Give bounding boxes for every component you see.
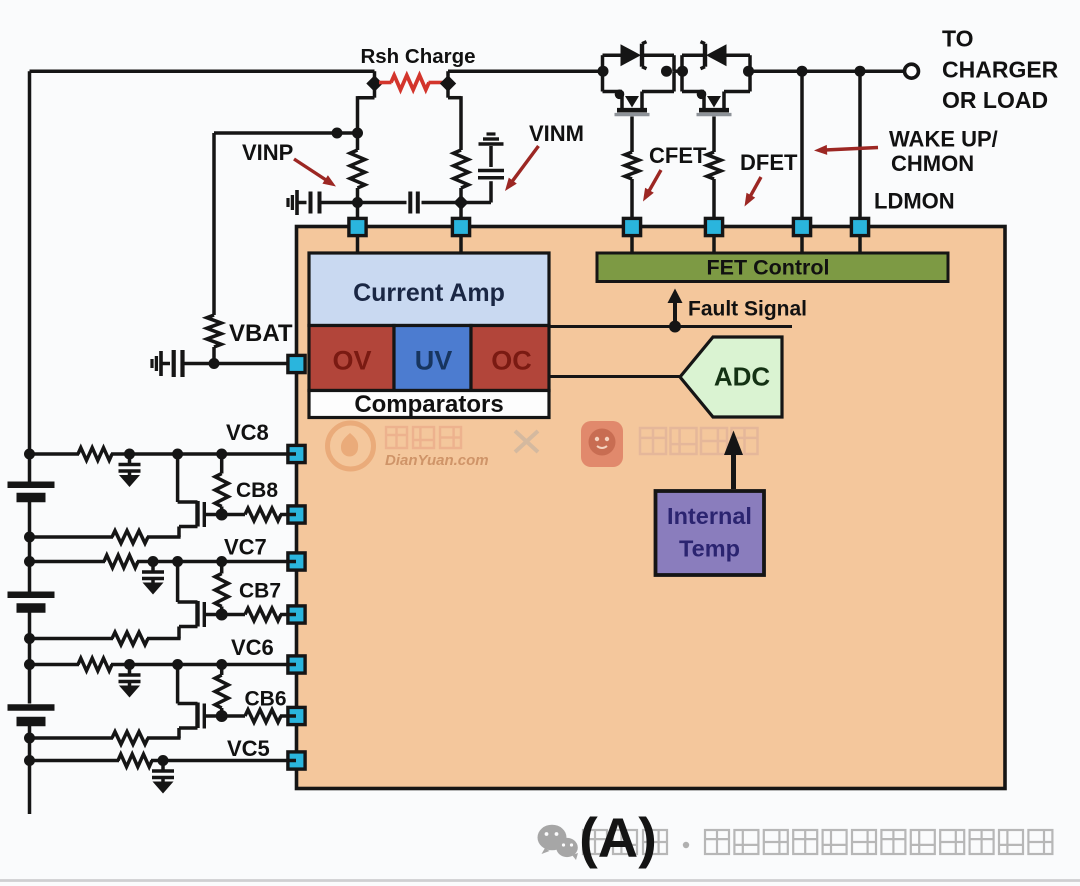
svg-text:OC: OC <box>491 346 532 376</box>
pin VBAT <box>288 355 305 372</box>
svg-text:VINP: VINP <box>242 140 293 165</box>
arrow into ADC (up) <box>724 431 743 490</box>
label CB8 <box>236 479 278 502</box>
svg-text:WAKE UP/: WAKE UP/ <box>889 127 998 152</box>
svg-text:VINM: VINM <box>529 121 584 146</box>
watermark robot icon + text <box>581 421 758 467</box>
gate wire CFET <box>625 117 639 218</box>
block OV comparator <box>309 326 394 391</box>
resistor CB7 lead to pin <box>222 608 296 621</box>
resistor CB8 (vertical) <box>215 454 228 515</box>
wire source row CB8 <box>24 531 181 544</box>
terminal: to charger/load <box>905 64 919 78</box>
pin VINP <box>349 218 366 235</box>
svg-text:CHMON: CHMON <box>891 151 974 176</box>
block Internal Temp <box>656 491 765 575</box>
capacitor C VINM + inverted ground <box>461 134 504 203</box>
pin WAKEUP <box>793 218 810 235</box>
block FET Control <box>597 253 948 282</box>
wire OC to ADC <box>549 375 681 378</box>
pin CFET <box>623 218 640 235</box>
wire: VINP node to VBAT filter <box>214 128 363 316</box>
pin VC6 <box>288 656 305 673</box>
pin VINM <box>452 218 469 235</box>
svg-text:Rsh Charge: Rsh Charge <box>360 45 475 68</box>
label VC7 <box>224 535 267 560</box>
node VC8 junctions <box>24 449 227 460</box>
pin VC5 <box>288 752 305 769</box>
svg-text:DFET: DFET <box>740 150 798 175</box>
label LDMON <box>874 189 955 214</box>
capacitor C VC8 + ground <box>119 454 141 487</box>
resistor Rsh (red zigzag) <box>379 75 443 89</box>
transistor DFET (discharge FET w/ body diode) <box>682 42 750 115</box>
arrow VINP <box>294 159 336 187</box>
label Rsh Charge <box>360 45 475 68</box>
label VINP <box>242 140 293 165</box>
block OC comparator <box>471 326 549 391</box>
svg-text:Temp: Temp <box>679 536 740 562</box>
pin CB6 <box>288 707 305 724</box>
block UV comparator <box>394 326 471 391</box>
label VBAT <box>229 320 293 347</box>
wire VC6 row <box>30 658 297 671</box>
pin DFET <box>705 218 722 235</box>
svg-text:VC7: VC7 <box>224 535 267 560</box>
svg-text:FET Control: FET Control <box>706 256 829 280</box>
transistor Q CB8 (balance FET) <box>178 454 222 537</box>
svg-text:Current Amp: Current Amp <box>353 279 505 307</box>
svg-text:DianYuan.com: DianYuan.com <box>385 452 489 469</box>
arrow WAKE UP <box>814 145 878 155</box>
node VBAT junction <box>209 358 220 369</box>
label CB6 <box>245 688 287 711</box>
node DFET left <box>677 66 688 77</box>
battery cell 3 <box>8 708 55 722</box>
wire: DFET to load terminal <box>750 69 905 73</box>
resistor R VINM (vertical) <box>454 150 469 217</box>
label (A) <box>579 806 657 869</box>
wire LDMON <box>855 66 866 217</box>
wire: VBAT node to pin <box>214 362 296 366</box>
svg-text:LDMON: LDMON <box>874 189 955 214</box>
svg-text:TO: TO <box>942 26 974 52</box>
svg-text:UV: UV <box>415 346 453 376</box>
label VC5 <box>227 736 270 761</box>
pin LDMON <box>851 218 868 235</box>
label CFET <box>649 143 707 168</box>
wire WAKEUP/CHMON <box>797 66 808 217</box>
svg-text:VC6: VC6 <box>231 635 274 660</box>
transistor CFET (charge FET w/ body diode) <box>603 42 675 115</box>
node CFET source <box>661 66 672 77</box>
wire source row CB6 <box>24 732 181 745</box>
footer divider line <box>0 879 1080 882</box>
node VC5 junctions <box>24 755 169 766</box>
wire: Rsh right drop to VINM line <box>448 88 461 150</box>
label VC6 <box>231 635 274 660</box>
battery cell 2 <box>8 595 55 608</box>
pin VC7 <box>288 553 305 570</box>
node DFET right <box>743 66 754 77</box>
IC block U1 (battery monitor) <box>297 227 1006 789</box>
node: Rsh left junction <box>366 71 382 92</box>
svg-text:Internal: Internal <box>667 503 752 529</box>
resistor CB6 lead to pin <box>222 710 296 723</box>
transistor Q CB7 (balance FET) <box>178 562 222 639</box>
svg-text:CB8: CB8 <box>236 479 278 502</box>
svg-text:VC5: VC5 <box>227 736 270 761</box>
wire VC7 row <box>30 555 297 568</box>
resistor CB6 (vertical) <box>215 665 228 717</box>
svg-text:OV: OV <box>332 346 371 376</box>
svg-text:Comparators: Comparators <box>354 391 503 418</box>
svg-text:VBAT: VBAT <box>229 320 293 347</box>
label DFET <box>740 150 798 175</box>
wire VC5 row <box>30 754 297 767</box>
wire fault signal line <box>549 325 792 328</box>
node VINM junction <box>453 195 468 210</box>
svg-text:ADC: ADC <box>714 362 771 392</box>
label CB7 <box>239 580 281 603</box>
gate wire DFET <box>707 117 721 218</box>
svg-text:CFET: CFET <box>649 143 707 168</box>
label Fault Signal <box>688 298 807 321</box>
wire between FETs <box>674 69 682 73</box>
resistor R VBAT (vertical) <box>207 315 221 364</box>
pin VC8 <box>288 445 305 462</box>
node CB6 junction <box>216 710 228 722</box>
watermark DianYuan text <box>385 427 538 469</box>
node CFET drain <box>598 66 609 77</box>
wire: pin stubs to Current Amp <box>358 236 462 254</box>
svg-text:CB7: CB7 <box>239 580 281 603</box>
svg-text:Fault Signal: Fault Signal <box>688 298 807 321</box>
block Comparators strip <box>309 391 549 419</box>
node: Rsh right junction <box>440 71 456 92</box>
node fault junction <box>669 321 681 333</box>
pin CB8 <box>288 506 305 523</box>
capacitor C VINP + ground <box>288 190 358 215</box>
label WAKE UP/CHMON <box>889 127 998 177</box>
svg-text:VC8: VC8 <box>226 420 269 445</box>
svg-text:CHARGER: CHARGER <box>942 57 1059 83</box>
block Current Amp <box>309 253 549 326</box>
label TO CHARGER OR LOAD <box>942 26 1059 114</box>
svg-text:OR LOAD: OR LOAD <box>942 87 1048 113</box>
node VC6 junctions <box>24 659 227 670</box>
wire VC8 row <box>30 448 297 461</box>
footer gray caption <box>583 830 1052 854</box>
wire: pin stubs to FET Control <box>632 236 860 254</box>
capacitor C VBAT + ground <box>152 350 214 377</box>
pin CB7 <box>288 606 305 623</box>
resistor CB7 (vertical) <box>215 562 228 615</box>
node CB8 junction <box>216 509 228 521</box>
node CB7 junction <box>216 609 228 621</box>
svg-text:(A): (A) <box>579 806 657 869</box>
capacitor C VC6 + ground <box>119 665 141 698</box>
capacitor C VC5 + ground <box>152 761 174 794</box>
arrow fault signal (up) <box>668 289 683 327</box>
watermark DianYuan badge <box>328 423 374 469</box>
arrow VINM <box>505 146 539 191</box>
capacitor C sense (between VINP/VINM) <box>358 192 462 214</box>
wire: Rsh left drop to VINP line <box>358 88 375 150</box>
label VINM <box>529 121 584 146</box>
arrow CFET <box>643 170 661 202</box>
svg-text:CB6: CB6 <box>245 688 287 711</box>
footer WeChat icon <box>538 825 579 860</box>
wire source row CB7 <box>24 632 181 645</box>
arrow DFET <box>745 177 762 207</box>
wire: pack+ top rail and left battery bus <box>30 71 375 481</box>
battery bus segments <box>28 502 32 815</box>
node VINP junction <box>352 197 363 208</box>
node VC7 junctions <box>24 556 227 567</box>
label VC8 <box>226 420 269 445</box>
capacitor C VC7 + ground <box>142 562 164 595</box>
resistor CB8 lead to pin <box>222 508 296 521</box>
battery cell 1 <box>8 485 55 498</box>
transistor Q CB6 (balance FET) <box>178 665 222 739</box>
resistor R VINP (vertical) <box>350 150 365 217</box>
wire: Rsh right to CFET <box>448 69 603 73</box>
block ADC <box>680 337 782 417</box>
